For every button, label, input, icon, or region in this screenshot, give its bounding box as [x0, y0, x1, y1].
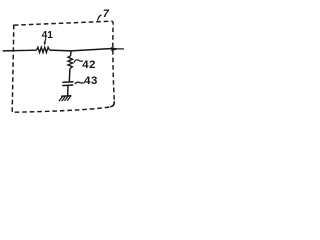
- wire: stub from capacitor to ground: [67, 85, 69, 95]
- wire: output stub past arrowhead: [117, 48, 124, 50]
- resistor R41 (horizontal zigzag): [37, 47, 50, 52]
- leader tilde for label 43: [75, 82, 85, 84]
- svg-text:7: 7: [103, 8, 110, 20]
- svg-text:41: 41: [42, 30, 54, 41]
- leader tilde for label 42: [74, 60, 83, 63]
- wire: branch segment between R42 and C43: [68, 69, 71, 82]
- wire: left input segment: [3, 49, 37, 52]
- svg-text:43: 43: [84, 75, 98, 87]
- dashed enclosure box (block 7): [12, 21, 114, 112]
- svg-text:42: 42: [82, 59, 96, 71]
- wire: vertical branch from junction: [70, 51, 72, 56]
- leader arrow for label 41: [44, 38, 47, 45]
- capacitor C43: [62, 82, 73, 86]
- resistor R42 (vertical zigzag): [68, 56, 73, 69]
- wire: middle segment from resistor to junction and to right border: [50, 49, 118, 51]
- arrowhead on output wire: [111, 47, 118, 52]
- bottom-right corner hook of dashed box: [110, 101, 114, 107]
- ground symbol: [59, 96, 72, 102]
- leader line for label 7: [98, 15, 102, 21]
